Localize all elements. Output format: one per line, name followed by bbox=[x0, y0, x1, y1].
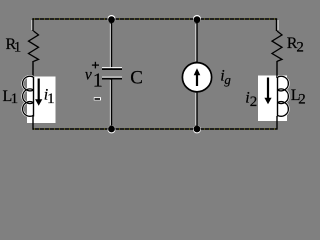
wire left top drop bbox=[32, 18, 34, 31]
wire source top bbox=[196, 19, 198, 63]
current arrow i2 bbox=[267, 78, 269, 99]
svg-text:2: 2 bbox=[298, 92, 306, 108]
wire halos (light anti-alias edges) bbox=[32, 20, 278, 125]
inductor L1 vertical line bbox=[33, 77, 35, 117]
svg-text:2: 2 bbox=[250, 94, 257, 110]
svg-text:2: 2 bbox=[296, 40, 304, 56]
wire capacitor top bbox=[111, 19, 113, 69]
wire L2 to bottom bbox=[276, 116, 278, 130]
svg-text:1: 1 bbox=[93, 69, 103, 91]
resistor R1 bbox=[29, 31, 39, 61]
wire R2 to L2 bbox=[276, 61, 278, 78]
wire right top drop bbox=[276, 18, 278, 31]
svg-text:1: 1 bbox=[47, 91, 55, 107]
wire top dither bbox=[34, 18, 276, 20]
junction dot top-right (source branch) bbox=[193, 15, 201, 23]
junction dot top-left (capacitor branch) bbox=[108, 15, 116, 23]
wire L1 to bottom bbox=[32, 116, 34, 130]
source arrow (up) bbox=[196, 75, 198, 86]
minus sign (v1 polarity) bbox=[94, 97, 101, 100]
current source ig circle bbox=[182, 63, 211, 92]
capacitor C plates bbox=[102, 67, 122, 69]
svg-text:C: C bbox=[130, 68, 143, 89]
plus sign (v1 polarity) bbox=[92, 62, 99, 69]
inductor L1 (three left loops) bbox=[23, 76, 34, 116]
junction dot bottom-right bbox=[193, 125, 201, 133]
inductor L2 (three right loops) bbox=[278, 76, 289, 116]
inductor L2 vertical line bbox=[277, 77, 279, 117]
wire R1 to L1 bbox=[32, 61, 34, 78]
L2 component white background box bbox=[258, 76, 287, 122]
wire capacitor bottom bbox=[111, 79, 113, 129]
L1 component white background box bbox=[27, 77, 56, 124]
svg-text:1: 1 bbox=[14, 39, 21, 55]
svg-text:1: 1 bbox=[11, 91, 19, 107]
wire top horizontal bbox=[33, 18, 277, 20]
current arrow i1 bbox=[38, 79, 40, 101]
wire source bottom bbox=[196, 92, 198, 129]
resistor R2 bbox=[272, 31, 282, 61]
wire bottom dither bbox=[34, 128, 276, 130]
svg-text:g: g bbox=[224, 72, 231, 87]
wire bottom horizontal bbox=[33, 128, 277, 130]
svg-text:v: v bbox=[85, 66, 92, 83]
junction dot bottom-left bbox=[108, 125, 116, 133]
